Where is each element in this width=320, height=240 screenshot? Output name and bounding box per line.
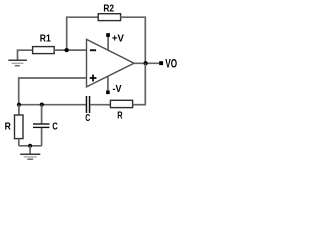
wire: bottom of parallel RC to ground xyxy=(19,145,42,147)
svg-text:R1: R1 xyxy=(40,34,51,45)
svg-text:C: C xyxy=(85,113,90,124)
wire: R2 to right vertical, down to output node xyxy=(120,17,145,63)
wire: non-inverting input to left, down xyxy=(19,78,87,105)
ground (left) xyxy=(8,59,27,61)
svg-text:R2: R2 xyxy=(103,4,114,15)
minus sign (inverting input) xyxy=(90,49,96,51)
+V terminal xyxy=(107,37,109,51)
terminal VO square xyxy=(159,61,163,65)
svg-text:C: C xyxy=(52,121,58,133)
wire: R1 left lead and ground drop xyxy=(18,50,33,60)
wire: R1 to inverting input xyxy=(54,49,87,51)
node: output junction xyxy=(143,61,147,65)
capacitor C (series, horizontal) xyxy=(86,96,88,113)
capacitor C (parallel, vertical) xyxy=(41,105,43,124)
wire: feedback left vertical + top segment to R2 xyxy=(67,17,99,50)
wire: bottom horizontal (node to series C) xyxy=(19,104,86,106)
plus sign (non-inverting input) xyxy=(90,77,97,79)
ground (bottom) xyxy=(29,146,31,154)
node: parallel R junction xyxy=(17,103,21,107)
wire: right vertical (output down to series R) xyxy=(144,63,146,104)
wire: series R to output vertical xyxy=(133,104,146,106)
svg-text:R: R xyxy=(117,111,123,122)
svg-text:VO: VO xyxy=(165,57,177,71)
node: ground junction xyxy=(28,144,32,148)
resistor R (parallel, vertical) xyxy=(18,105,20,115)
svg-text:R: R xyxy=(5,120,12,132)
svg-text:+V: +V xyxy=(112,33,124,44)
wire: series C to series R xyxy=(90,104,110,106)
node: feedback / R1 junction xyxy=(64,48,68,52)
op-amp U1 xyxy=(87,39,135,87)
resistor R1 xyxy=(33,47,55,54)
svg-text:-V: -V xyxy=(113,84,122,95)
-V terminal xyxy=(107,76,109,91)
wire: output xyxy=(134,62,159,64)
resistor R (series, horizontal) xyxy=(110,100,132,107)
node: parallel C junction xyxy=(40,103,44,107)
resistor R2 xyxy=(98,14,120,21)
